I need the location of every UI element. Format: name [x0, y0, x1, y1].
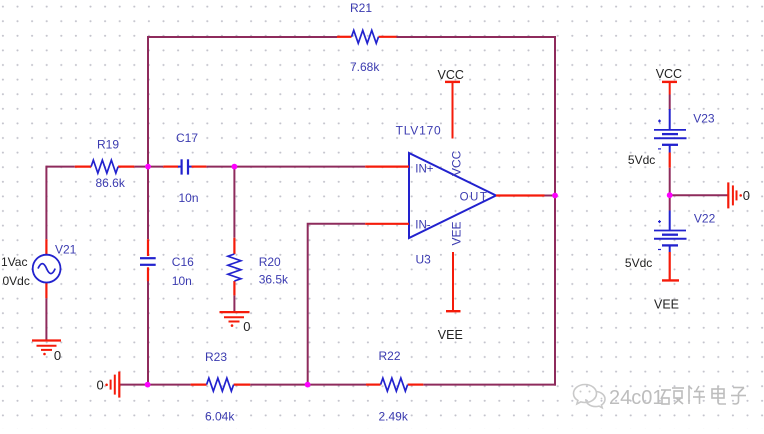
wire bottom rail left — [120, 384, 191, 386]
ground 0 bottom-left rotated — [97, 372, 120, 398]
wire node to V22 — [669, 195, 671, 210]
wire right vertical output column — [554, 36, 556, 386]
wire bottom rail right — [423, 384, 556, 386]
svg-text:TLV170: TLV170 — [396, 124, 442, 138]
svg-text:5Vdc: 5Vdc — [628, 153, 655, 167]
svg-text:1Vac: 1Vac — [1, 255, 27, 269]
svg-text:IN-: IN- — [415, 220, 431, 232]
svg-text:IN+: IN+ — [415, 163, 434, 175]
junction node output — [552, 193, 558, 199]
wire R20 branch upper — [233, 167, 235, 238]
svg-text:0: 0 — [243, 319, 250, 334]
svg-text:36.5k: 36.5k — [259, 273, 289, 287]
svg-text:V23: V23 — [693, 112, 715, 126]
junction node bottom middle — [305, 382, 311, 388]
wire left source vertical bottom — [45, 298, 47, 340]
svg-text:R20: R20 — [259, 255, 281, 269]
wire left source vertical top — [45, 166, 47, 240]
wire IN- horizontal — [308, 224, 366, 386]
svg-text:VCC: VCC — [438, 68, 464, 82]
svg-text:OUT: OUT — [460, 191, 489, 203]
svg-text:7.68k: 7.68k — [350, 60, 380, 74]
svg-text:VEE: VEE — [450, 221, 464, 245]
resistor R22 — [366, 349, 423, 424]
resistor R20 — [228, 238, 289, 296]
junction node bottom left — [145, 382, 151, 388]
resistor R19 — [75, 138, 135, 190]
svg-text:V21: V21 — [55, 243, 77, 257]
junction node C17 left — [145, 164, 151, 170]
power VCC symbol supply — [656, 67, 682, 95]
svg-text:C16: C16 — [172, 255, 194, 269]
svg-text:U3: U3 — [416, 253, 432, 267]
svg-text:10n: 10n — [172, 274, 192, 288]
svg-text:0: 0 — [97, 378, 104, 393]
svg-text:10n: 10n — [179, 191, 199, 205]
wire C16 branch upper — [147, 167, 149, 240]
svg-text:VEE: VEE — [654, 298, 679, 312]
ground 0 under R20 — [220, 312, 251, 334]
junction node V23/V22 — [667, 192, 673, 198]
battery V22 — [625, 211, 716, 281]
wire R20 branch to ground — [233, 295, 235, 311]
svg-text:0: 0 — [54, 348, 61, 363]
svg-text:R21: R21 — [350, 1, 372, 15]
wire main input rail — [46, 166, 74, 168]
ground 0 under V21 — [32, 341, 61, 364]
svg-text:0: 0 — [743, 188, 750, 203]
voltage source V21 — [1, 239, 77, 298]
svg-text:R19: R19 — [97, 138, 119, 152]
capacitor C16 — [140, 239, 194, 288]
power VEE symbol op-amp — [438, 252, 463, 342]
svg-text:VEE: VEE — [438, 328, 463, 342]
svg-text:24c01: 24c01 — [609, 387, 664, 409]
wire supply mid rail to ground — [670, 194, 728, 196]
resistor R23 — [191, 350, 251, 424]
wire C16 branch lower — [147, 281, 149, 386]
watermark wechat icon — [574, 385, 606, 408]
op-amp U3 — [365, 124, 544, 267]
capacitor C17 — [163, 131, 206, 205]
svg-text:5Vdc: 5Vdc — [625, 256, 652, 270]
wire V23 top to VCC — [669, 95, 671, 111]
power VCC symbol op-amp — [438, 68, 464, 138]
svg-text:6.04k: 6.04k — [205, 410, 235, 424]
battery V23 — [628, 109, 715, 168]
svg-text:VCC: VCC — [450, 150, 464, 176]
svg-text:2.49k: 2.49k — [379, 410, 409, 424]
wire R19 to C17 — [134, 166, 163, 168]
wire top rail left segment — [148, 37, 337, 167]
svg-text:R22: R22 — [379, 349, 401, 363]
watermark text CJK strokes — [661, 386, 746, 405]
wire bottom rail middle — [250, 384, 366, 386]
svg-text:0Vdc: 0Vdc — [3, 274, 30, 288]
ground 0 right of supplies rotated — [728, 182, 750, 208]
wire C17 to IN+ — [206, 166, 365, 168]
power VEE symbol supply — [654, 280, 679, 311]
junction node C17 right — [232, 164, 238, 170]
svg-text:V22: V22 — [694, 212, 716, 226]
svg-text:VCC: VCC — [656, 67, 682, 81]
svg-text:R23: R23 — [205, 350, 227, 364]
wire V23 bottom to node — [669, 168, 671, 196]
wire output stub — [545, 195, 557, 197]
svg-text:86.6k: 86.6k — [96, 176, 126, 190]
wire top rail right segment — [397, 36, 557, 38]
svg-text:C17: C17 — [176, 131, 198, 145]
resistor R21 — [337, 1, 397, 74]
